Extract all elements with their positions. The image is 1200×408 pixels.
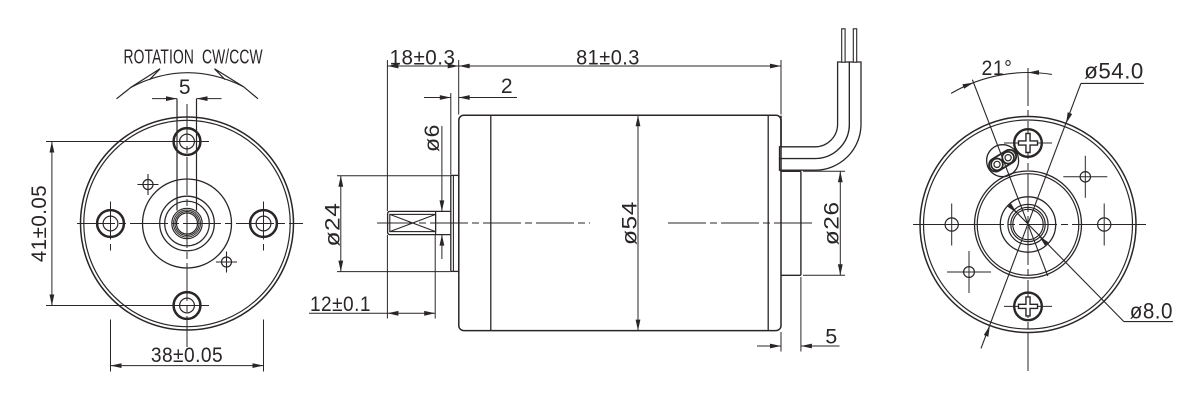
- svg-text:5: 5: [825, 325, 837, 349]
- svg-text:18±0.3: 18±0.3: [390, 46, 456, 69]
- svg-text:ø6: ø6: [421, 124, 444, 152]
- svg-text:2: 2: [501, 75, 513, 98]
- svg-text:12±0.1: 12±0.1: [310, 293, 371, 316]
- svg-text:ø54.0: ø54.0: [1084, 59, 1144, 84]
- svg-text:81±0.3: 81±0.3: [576, 46, 640, 69]
- svg-text:38±0.05: 38±0.05: [151, 344, 223, 367]
- svg-text:ø54: ø54: [619, 201, 642, 245]
- svg-text:5: 5: [179, 76, 191, 99]
- svg-text:41±0.05: 41±0.05: [28, 185, 51, 262]
- svg-text:ø24: ø24: [321, 203, 344, 247]
- svg-text:ROTATION CW/CCW: ROTATION CW/CCW: [124, 45, 263, 68]
- svg-text:ø8.0: ø8.0: [1130, 299, 1173, 324]
- svg-text:ø26: ø26: [821, 201, 844, 245]
- svg-text:21°: 21°: [982, 57, 1013, 80]
